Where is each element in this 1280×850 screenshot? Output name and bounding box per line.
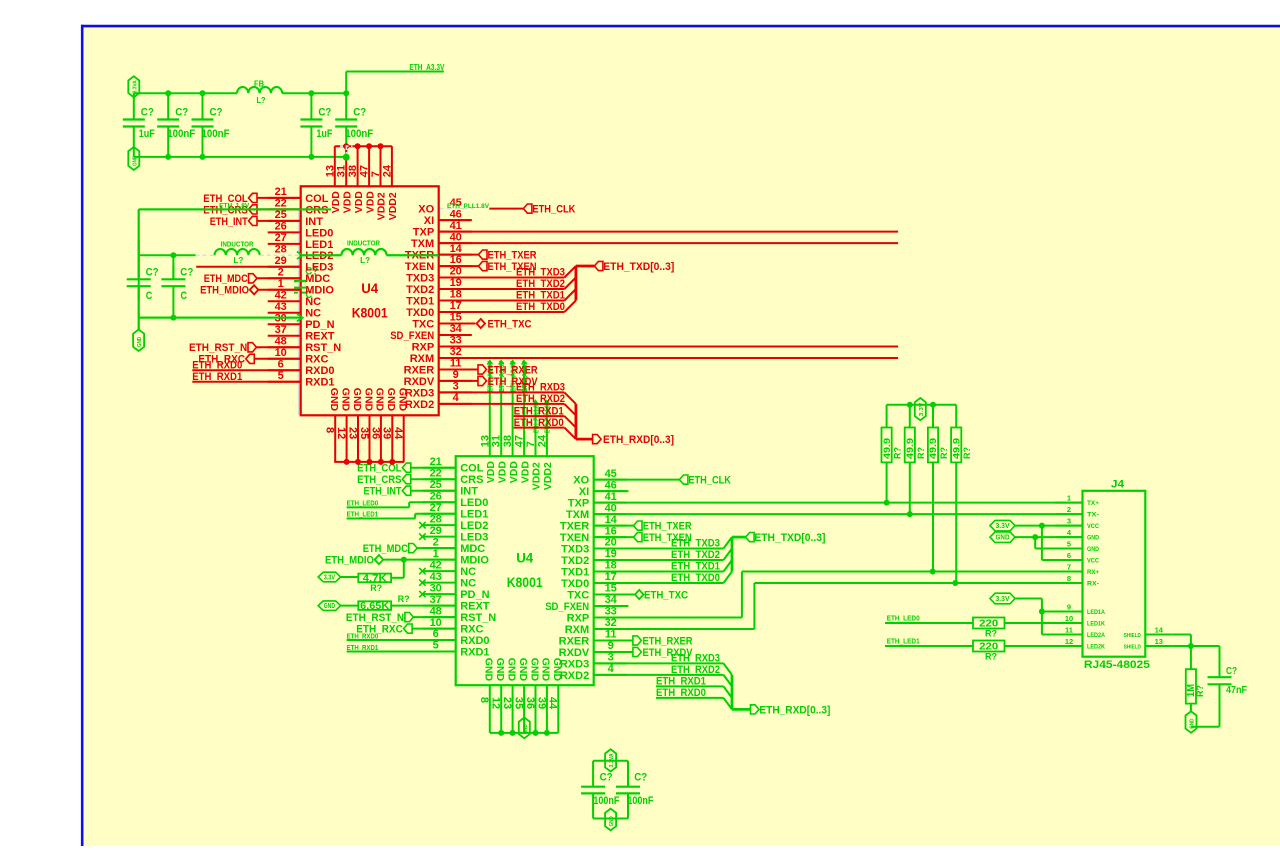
svg-text:R?: R?: [916, 447, 926, 459]
svg-text:RXC: RXC: [460, 624, 483, 636]
svg-text:39: 39: [381, 427, 393, 439]
svg-text:1uF: 1uF: [139, 128, 155, 140]
svg-text:TXER: TXER: [560, 521, 589, 533]
svg-text:11: 11: [1065, 625, 1073, 634]
svg-text:14: 14: [605, 514, 618, 526]
svg-text:21: 21: [275, 186, 287, 198]
svg-text:49.9: 49.9: [882, 438, 893, 459]
svg-text:ETH_1.8V: ETH_1.8V: [219, 203, 249, 209]
svg-text:ETH_RXD[0..3]: ETH_RXD[0..3]: [759, 704, 830, 716]
svg-text:28: 28: [275, 244, 287, 256]
svg-text:RXD1: RXD1: [460, 646, 489, 658]
svg-text:GND: GND: [551, 658, 563, 682]
svg-text:1uF: 1uF: [316, 128, 332, 140]
svg-text:ETH_RST_N: ETH_RST_N: [346, 612, 404, 624]
svg-text:35: 35: [513, 697, 525, 709]
svg-text:RST_N: RST_N: [460, 612, 496, 624]
svg-text:GND: GND: [385, 388, 397, 412]
svg-text:20: 20: [450, 266, 462, 278]
svg-text:ETH_A3.3V: ETH_A3.3V: [409, 62, 444, 72]
svg-text:15: 15: [450, 312, 462, 324]
svg-text:49.9: 49.9: [951, 438, 962, 459]
svg-text:12: 12: [1065, 637, 1073, 646]
svg-text:100nF: 100nF: [167, 128, 195, 140]
svg-text:ETH_MDC: ETH_MDC: [204, 273, 248, 285]
svg-text:3.3V: 3.3V: [324, 575, 336, 582]
svg-text:14: 14: [1155, 625, 1164, 634]
svg-text:C?: C?: [146, 267, 159, 279]
svg-text:ETH_TXD[0..3]: ETH_TXD[0..3]: [603, 261, 674, 273]
svg-text:R?: R?: [985, 652, 997, 662]
svg-text:17: 17: [450, 300, 462, 312]
svg-text:GND: GND: [505, 658, 517, 682]
svg-text:VDD: VDD: [519, 461, 531, 484]
svg-text:TXP: TXP: [413, 227, 434, 239]
svg-text:VDD2: VDD2: [531, 462, 543, 490]
svg-text:47nF: 47nF: [1226, 684, 1247, 696]
svg-text:18: 18: [605, 560, 617, 572]
svg-text:R?: R?: [962, 447, 972, 459]
svg-text:44: 44: [392, 427, 404, 440]
svg-text:GND: GND: [494, 658, 506, 682]
svg-text:LED2K: LED2K: [1087, 643, 1105, 650]
svg-text:43: 43: [275, 301, 287, 313]
svg-text:C?: C?: [180, 267, 193, 279]
svg-text:NC: NC: [305, 308, 321, 320]
svg-text:VCC: VCC: [1087, 557, 1099, 564]
svg-text:VDD: VDD: [364, 191, 376, 214]
svg-text:9: 9: [1067, 602, 1071, 611]
svg-text:R?: R?: [370, 583, 382, 593]
svg-text:TXD0: TXD0: [406, 307, 434, 319]
svg-text:100nF: 100nF: [627, 795, 653, 807]
svg-text:ETH_RXD3: ETH_RXD3: [671, 653, 720, 665]
svg-text:ETH_TXER: ETH_TXER: [488, 250, 537, 262]
svg-text:U4: U4: [516, 551, 533, 566]
svg-text:49.9: 49.9: [905, 438, 916, 459]
svg-text:ETH_TXD[0..3]: ETH_TXD[0..3]: [754, 532, 825, 544]
svg-text:RX-: RX-: [1087, 580, 1099, 587]
svg-text:41: 41: [450, 220, 462, 232]
svg-text:ETH_MDC: ETH_MDC: [363, 543, 408, 555]
svg-text:TXD3: TXD3: [561, 543, 589, 555]
svg-text:GND: GND: [397, 388, 409, 412]
svg-text:GND: GND: [351, 388, 363, 412]
svg-text:8: 8: [1067, 574, 1071, 583]
svg-text:100nF: 100nF: [593, 795, 619, 807]
svg-text:27: 27: [430, 502, 442, 514]
svg-text:CRS: CRS: [460, 474, 483, 486]
svg-text:ETH_PLL1.8V: ETH_PLL1.8V: [447, 204, 489, 210]
svg-text:LED2: LED2: [460, 520, 488, 532]
svg-text:29: 29: [430, 525, 442, 537]
svg-text:J4: J4: [1111, 479, 1125, 491]
svg-text:PD_N: PD_N: [305, 319, 334, 331]
svg-text:37: 37: [275, 324, 287, 336]
svg-text:INT: INT: [305, 216, 323, 228]
svg-text:1: 1: [433, 548, 439, 560]
svg-text:GND: GND: [137, 337, 143, 347]
svg-text:10: 10: [430, 617, 442, 629]
svg-text:3.3V: 3.3V: [996, 596, 1010, 603]
svg-text:L?: L?: [360, 256, 370, 265]
svg-text:LED3: LED3: [460, 532, 488, 544]
svg-text:NC: NC: [460, 578, 476, 590]
svg-text:3.3V: 3.3V: [996, 523, 1010, 530]
svg-text:30: 30: [430, 582, 442, 594]
svg-text:MDC: MDC: [460, 543, 485, 555]
svg-text:VDD: VDD: [508, 461, 520, 484]
svg-text:23: 23: [346, 427, 358, 439]
svg-text:GND: GND: [523, 724, 529, 734]
svg-text:32: 32: [605, 617, 617, 629]
svg-text:REXT: REXT: [460, 601, 490, 613]
svg-text:40: 40: [605, 502, 617, 514]
svg-text:9: 9: [608, 640, 614, 652]
svg-text:GND: GND: [132, 156, 138, 166]
svg-text:18: 18: [450, 289, 462, 301]
svg-text:XO: XO: [573, 475, 589, 487]
svg-text:1: 1: [278, 278, 284, 290]
svg-text:3: 3: [1067, 516, 1071, 525]
svg-text:ETH_CRS: ETH_CRS: [357, 474, 401, 486]
svg-text:TXC: TXC: [567, 589, 589, 601]
svg-text:33: 33: [605, 606, 617, 618]
svg-text:36: 36: [524, 697, 536, 709]
svg-text:11: 11: [605, 629, 617, 641]
svg-text:25: 25: [430, 479, 442, 491]
svg-text:RXD0: RXD0: [305, 365, 334, 377]
svg-text:44: 44: [547, 697, 559, 710]
svg-text:ETH_CLK: ETH_CLK: [532, 204, 575, 216]
svg-text:37: 37: [430, 594, 442, 606]
svg-text:GND: GND: [609, 816, 615, 826]
svg-text:C?: C?: [210, 107, 223, 119]
svg-text:VDD: VDD: [496, 461, 508, 484]
svg-text:RXP: RXP: [412, 341, 435, 353]
svg-text:25: 25: [275, 209, 287, 221]
svg-text:L?: L?: [233, 256, 243, 265]
svg-text:35: 35: [358, 427, 370, 439]
svg-text:ETH_MDIO: ETH_MDIO: [325, 555, 374, 567]
svg-text:RXM: RXM: [410, 353, 434, 365]
svg-text:ETH_MDIO: ETH_MDIO: [200, 285, 249, 297]
svg-text:100nF: 100nF: [202, 128, 230, 140]
svg-text:GND: GND: [328, 388, 340, 412]
svg-text:C?: C?: [353, 107, 366, 119]
svg-text:RXER: RXER: [404, 364, 435, 376]
svg-text:GND: GND: [1087, 546, 1099, 553]
svg-text:LED2A: LED2A: [1087, 632, 1105, 639]
svg-text:4: 4: [453, 392, 460, 404]
svg-text:29: 29: [275, 255, 287, 267]
svg-text:ETH_TXD0: ETH_TXD0: [671, 572, 720, 584]
svg-text:ETH_RXD1: ETH_RXD1: [514, 405, 564, 417]
svg-text:4: 4: [608, 663, 615, 675]
svg-text:2: 2: [1067, 505, 1071, 514]
svg-text:SHIELD: SHIELD: [1124, 644, 1141, 650]
svg-text:ETH_TXC: ETH_TXC: [644, 589, 688, 601]
svg-text:6: 6: [433, 628, 439, 640]
svg-text:LED1: LED1: [305, 239, 333, 251]
svg-text:1: 1: [1067, 493, 1071, 502]
svg-text:C?: C?: [318, 107, 331, 119]
svg-text:TXD2: TXD2: [561, 555, 589, 567]
svg-text:XI: XI: [424, 215, 434, 227]
svg-text:ETH_LED1: ETH_LED1: [887, 638, 920, 645]
svg-text:GND: GND: [1087, 535, 1099, 542]
svg-text:ETH_RXD2: ETH_RXD2: [671, 664, 720, 676]
svg-text:10: 10: [275, 347, 287, 359]
svg-text:5: 5: [433, 640, 439, 652]
svg-text:PD_N: PD_N: [460, 589, 489, 601]
svg-text:LED1: LED1: [460, 509, 488, 521]
svg-text:TXD0: TXD0: [561, 578, 589, 590]
svg-text:ETH_RST_N: ETH_RST_N: [189, 342, 247, 354]
svg-text:46: 46: [605, 479, 617, 491]
svg-text:RXP: RXP: [567, 612, 590, 624]
svg-text:RXC: RXC: [305, 354, 328, 366]
svg-text:GND: GND: [483, 658, 495, 682]
svg-text:ETH_RXER: ETH_RXER: [488, 364, 538, 376]
svg-text:RJ45-48025: RJ45-48025: [1084, 659, 1150, 671]
svg-text:5: 5: [1067, 539, 1071, 548]
svg-text:ETH_RXD0: ETH_RXD0: [656, 687, 706, 699]
svg-text:COL: COL: [305, 193, 329, 205]
svg-text:2: 2: [433, 536, 439, 548]
svg-text:41: 41: [605, 491, 617, 503]
svg-text:TXM: TXM: [411, 238, 434, 250]
svg-text:VDD: VDD: [353, 191, 365, 214]
svg-text:RXD2: RXD2: [560, 670, 589, 682]
svg-text:34: 34: [450, 323, 463, 335]
svg-text:GND: GND: [362, 388, 374, 412]
svg-text:ETH_RXD3: ETH_RXD3: [516, 382, 565, 394]
svg-text:GND: GND: [540, 658, 552, 682]
svg-text:13: 13: [1155, 637, 1163, 646]
svg-text:12: 12: [335, 427, 347, 439]
svg-text:3: 3: [453, 381, 459, 393]
svg-text:LED3: LED3: [305, 262, 333, 274]
svg-text:VDD: VDD: [341, 191, 353, 214]
svg-text:8: 8: [478, 697, 490, 703]
svg-text:K8001: K8001: [507, 575, 543, 590]
svg-text:VDD2: VDD2: [387, 192, 399, 220]
svg-text:12: 12: [490, 697, 502, 709]
svg-text:3.3VA: 3.3VA: [609, 753, 615, 767]
svg-text:GND: GND: [528, 658, 540, 682]
svg-text:ETH_RXER: ETH_RXER: [643, 635, 693, 647]
svg-text:SD_FXEN: SD_FXEN: [390, 330, 434, 342]
svg-text:TX-: TX-: [1087, 512, 1099, 519]
svg-text:3: 3: [608, 652, 614, 664]
svg-text:VDD2: VDD2: [376, 192, 388, 220]
svg-text:LED1A: LED1A: [1087, 609, 1105, 616]
svg-text:ETH_RXD1: ETH_RXD1: [656, 676, 706, 688]
svg-text:XI: XI: [579, 486, 589, 498]
svg-text:NC: NC: [460, 566, 476, 578]
svg-text:TXEN: TXEN: [405, 261, 434, 273]
svg-text:5: 5: [278, 370, 284, 382]
svg-text:ETH_LED0: ETH_LED0: [887, 615, 920, 622]
svg-text:6: 6: [278, 358, 284, 370]
svg-text:VDD: VDD: [330, 191, 342, 214]
svg-text:ETH_RXD2: ETH_RXD2: [516, 393, 565, 405]
svg-text:L?: L?: [257, 96, 266, 105]
svg-text:REXT: REXT: [305, 331, 335, 343]
svg-text:SHIELD: SHIELD: [1124, 633, 1141, 639]
svg-text:RX+: RX+: [1087, 569, 1099, 576]
svg-text:ETH_TXD1: ETH_TXD1: [671, 561, 720, 573]
svg-text:ETH_TXD3: ETH_TXD3: [671, 538, 720, 550]
svg-text:R?: R?: [985, 629, 997, 639]
svg-text:ETH_TXD0: ETH_TXD0: [516, 301, 565, 313]
svg-text:R?: R?: [893, 447, 903, 459]
svg-text:2: 2: [278, 267, 284, 279]
svg-text:11: 11: [450, 358, 462, 370]
svg-text:TXEN: TXEN: [560, 532, 589, 544]
svg-text:LED0: LED0: [460, 497, 488, 509]
svg-text:23: 23: [501, 697, 513, 709]
svg-text:RXD3: RXD3: [560, 658, 589, 670]
svg-text:39: 39: [535, 697, 547, 709]
svg-text:R?: R?: [939, 447, 949, 459]
svg-text:TXM: TXM: [566, 509, 589, 521]
svg-text:8: 8: [324, 427, 336, 433]
svg-text:20: 20: [605, 537, 617, 549]
svg-text:VCC: VCC: [1087, 523, 1099, 530]
svg-text:6.65K: 6.65K: [360, 601, 390, 612]
svg-text:ETH_TXD2: ETH_TXD2: [671, 549, 720, 561]
svg-text:22: 22: [430, 467, 442, 479]
svg-text:VDD2: VDD2: [542, 462, 554, 490]
svg-text:LED1K: LED1K: [1087, 620, 1105, 627]
svg-text:ETH_INT: ETH_INT: [364, 486, 402, 498]
svg-text:U4: U4: [361, 281, 378, 296]
svg-text:ETH_INT: ETH_INT: [210, 216, 248, 228]
svg-text:6: 6: [1067, 551, 1071, 560]
svg-text:MDC: MDC: [305, 273, 330, 285]
svg-text:RXDV: RXDV: [404, 376, 435, 388]
svg-text:RXD0: RXD0: [460, 635, 489, 647]
svg-text:LED0: LED0: [305, 227, 333, 239]
svg-text:NC: NC: [305, 296, 321, 308]
svg-text:45: 45: [605, 468, 617, 480]
svg-text:ETH_RXD0: ETH_RXD0: [514, 417, 564, 429]
svg-text:22: 22: [275, 198, 287, 210]
svg-text:INT: INT: [460, 486, 478, 498]
svg-text:16: 16: [450, 254, 462, 266]
svg-text:TXD3: TXD3: [406, 272, 434, 284]
svg-text:GND: GND: [374, 388, 386, 412]
svg-text:46: 46: [450, 208, 462, 220]
svg-text:SD_FXEN: SD_FXEN: [545, 601, 589, 613]
svg-text:ETH_TXD2: ETH_TXD2: [516, 278, 565, 290]
svg-text:48: 48: [430, 605, 442, 617]
svg-text:10: 10: [1065, 614, 1073, 623]
svg-text:ETH_RXD[0..3]: ETH_RXD[0..3]: [603, 434, 674, 446]
svg-text:7: 7: [1067, 562, 1071, 571]
svg-text:34: 34: [605, 594, 618, 606]
svg-text:3.3VA: 3.3VA: [132, 80, 138, 93]
svg-text:26: 26: [430, 490, 442, 502]
svg-text:FB: FB: [254, 80, 264, 89]
svg-text:17: 17: [605, 571, 617, 583]
svg-text:27: 27: [275, 232, 287, 244]
svg-text:42: 42: [430, 559, 442, 571]
svg-text:C?: C?: [141, 107, 154, 119]
svg-text:R?: R?: [398, 594, 410, 604]
svg-text:TXD2: TXD2: [406, 284, 434, 296]
svg-text:100nF: 100nF: [345, 128, 373, 140]
svg-text:3.3V: 3.3V: [919, 402, 925, 416]
svg-text:19: 19: [605, 548, 617, 560]
svg-text:COL: COL: [460, 463, 484, 475]
svg-text:C?: C?: [600, 771, 613, 783]
svg-text:42: 42: [275, 290, 287, 302]
svg-text:33: 33: [450, 335, 462, 347]
svg-text:GND: GND: [996, 535, 1010, 542]
svg-text:28: 28: [430, 513, 442, 525]
svg-text:C: C: [181, 290, 188, 302]
svg-text:48: 48: [275, 336, 287, 348]
svg-text:C: C: [146, 290, 153, 302]
svg-text:32: 32: [450, 346, 462, 358]
svg-text:MDIO: MDIO: [305, 285, 334, 297]
svg-text:ETH_TXER: ETH_TXER: [643, 521, 692, 533]
svg-text:C?: C?: [175, 107, 188, 119]
svg-text:19: 19: [450, 277, 462, 289]
svg-text:9: 9: [453, 369, 459, 381]
svg-text:XO: XO: [418, 204, 434, 216]
svg-text:GND: GND: [517, 658, 529, 682]
svg-text:ETH_CLK: ETH_CLK: [688, 475, 731, 487]
svg-text:ETH_TXC: ETH_TXC: [488, 318, 532, 330]
svg-text:14: 14: [450, 243, 463, 255]
svg-text:INDUCTOR: INDUCTOR: [221, 242, 254, 249]
svg-text:C?: C?: [634, 771, 647, 783]
svg-text:ETH_TXD3: ETH_TXD3: [516, 267, 565, 279]
svg-text:26: 26: [275, 221, 287, 233]
svg-text:GND: GND: [324, 603, 335, 610]
svg-text:K8001: K8001: [352, 305, 388, 320]
svg-text:RXER: RXER: [559, 635, 590, 647]
svg-text:INDUCTOR: INDUCTOR: [347, 241, 380, 248]
svg-text:49.9: 49.9: [928, 438, 939, 459]
svg-text:R?: R?: [1195, 685, 1205, 697]
svg-text:RXD1: RXD1: [305, 377, 334, 389]
svg-text:TXP: TXP: [568, 498, 589, 510]
svg-text:ETH_TXD1: ETH_TXD1: [516, 290, 565, 302]
svg-text:RXM: RXM: [565, 624, 589, 636]
svg-text:GND: GND: [339, 388, 351, 412]
svg-text:TX+: TX+: [1087, 500, 1099, 507]
svg-text:TXC: TXC: [412, 318, 434, 330]
svg-text:36: 36: [369, 427, 381, 439]
svg-text:15: 15: [605, 583, 617, 595]
svg-text:MDIO: MDIO: [460, 555, 489, 567]
svg-text:TXD1: TXD1: [561, 566, 589, 578]
svg-text:TXD1: TXD1: [406, 295, 434, 307]
svg-text:RST_N: RST_N: [305, 342, 341, 354]
svg-text:21: 21: [430, 456, 442, 468]
svg-text:C?: C?: [1226, 666, 1237, 677]
svg-text:43: 43: [430, 571, 442, 583]
svg-text:40: 40: [450, 231, 462, 243]
svg-text:16: 16: [605, 525, 617, 537]
svg-text:VDD: VDD: [485, 461, 497, 484]
